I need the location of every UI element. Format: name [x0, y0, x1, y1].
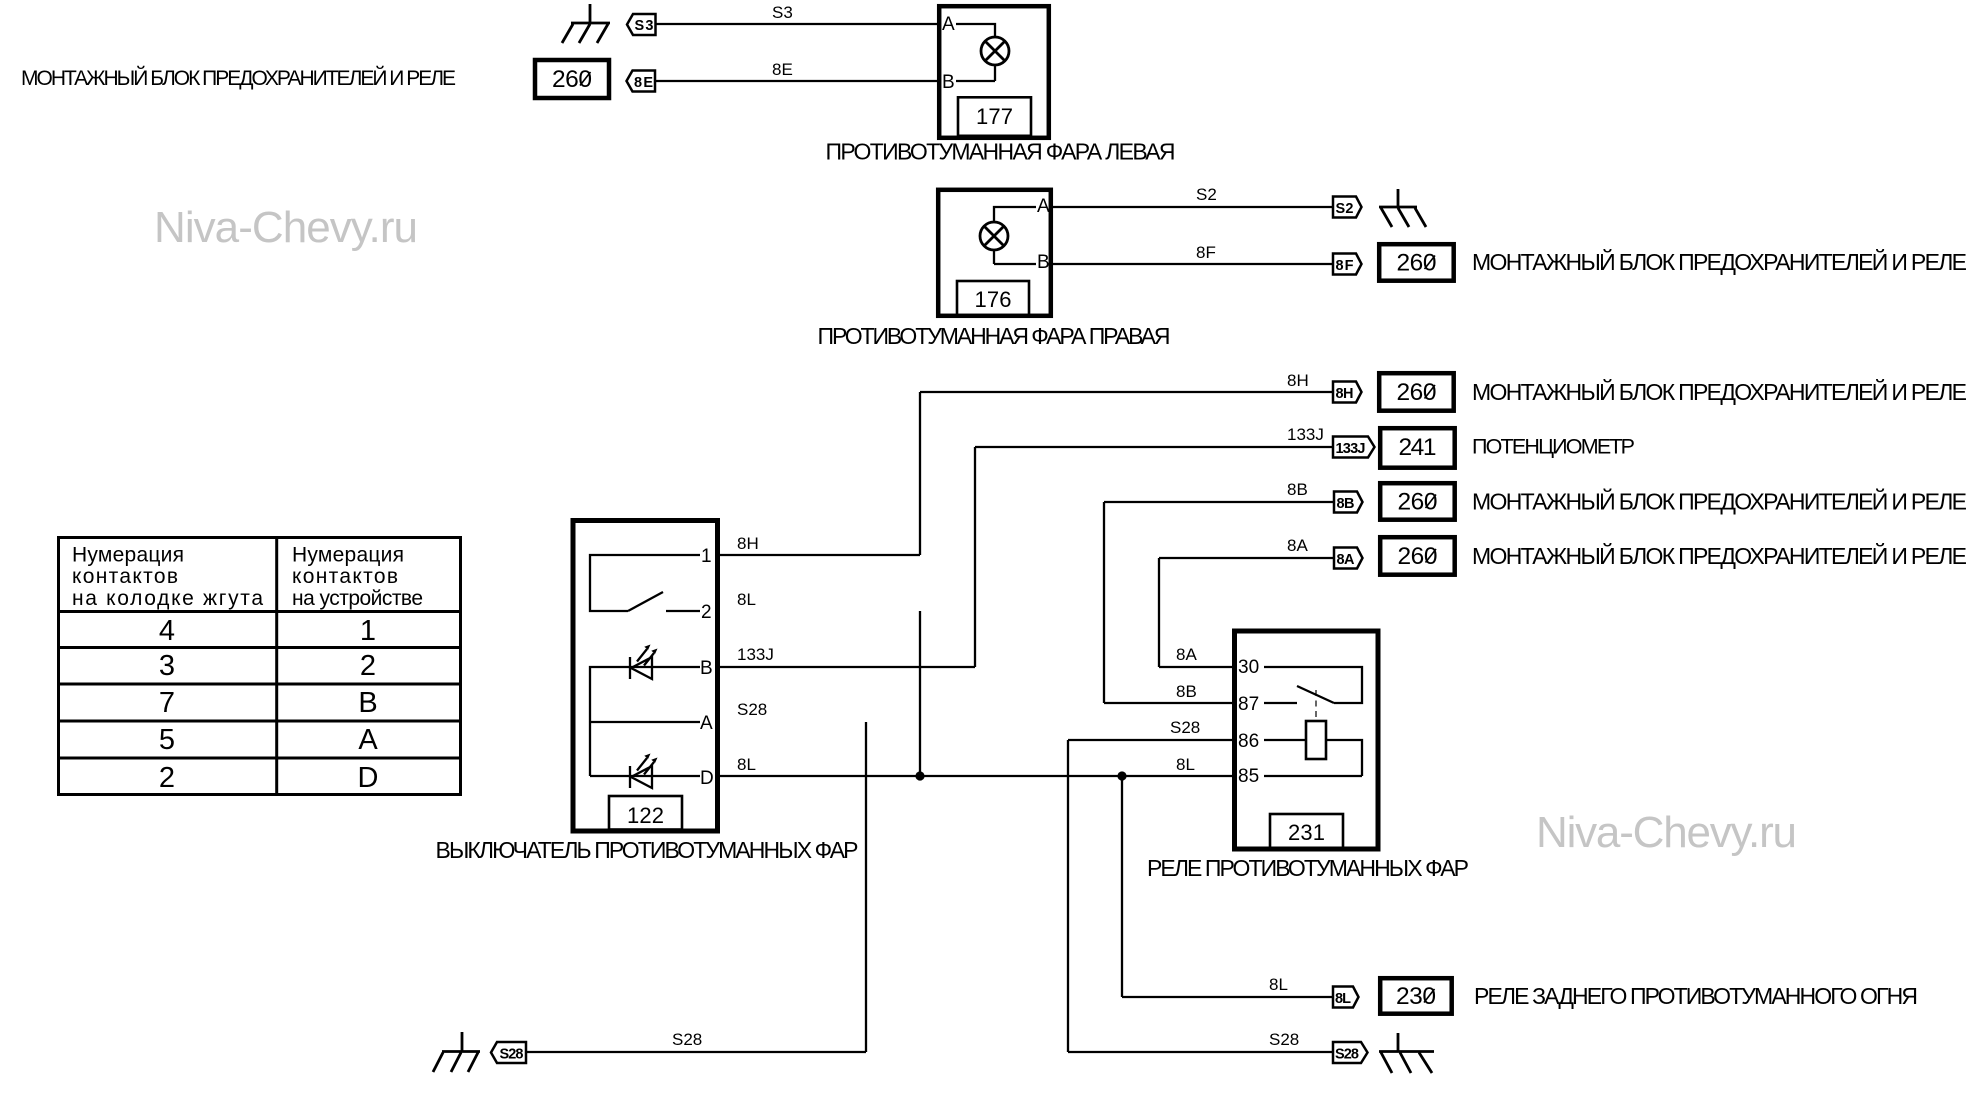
- wire 133J: [720, 447, 1333, 667]
- svg-text:2: 2: [701, 602, 712, 623]
- svg-text:контактов: контактов: [72, 565, 178, 588]
- LED indicator at pin B: [630, 645, 658, 680]
- svg-text:B: B: [358, 687, 377, 719]
- svg-text:МОНТАЖНЫЙ БЛОК ПРЕДОХРАНИТЕЛЕЙ: МОНТАЖНЫЙ БЛОК ПРЕДОХРАНИТЕЛЕЙ И РЕЛЕ: [1472, 378, 1967, 405]
- relay box 231: [1235, 631, 1379, 849]
- svg-text:8B: 8B: [1337, 496, 1355, 512]
- svg-text:7: 7: [159, 687, 175, 719]
- svg-text:260: 260: [1398, 543, 1438, 570]
- wire S28 to relay 86: [1068, 740, 1234, 1052]
- svg-text:S2: S2: [1196, 185, 1217, 204]
- inner designator box 176: [957, 281, 1029, 316]
- relay coil wiring 86-85: [1264, 740, 1362, 776]
- inner designator box 177: [958, 97, 1031, 136]
- svg-text:S28: S28: [1335, 1047, 1359, 1063]
- svg-text:A: A: [942, 14, 955, 35]
- inner designator box 231: [1270, 814, 1343, 848]
- svg-text:8H: 8H: [1336, 386, 1354, 402]
- ground S28 bottom-right: [1379, 1033, 1434, 1073]
- wire S28 bottom-left: [526, 1051, 866, 1053]
- svg-text:МОНТАЖНЫЙ БЛОК ПРЕДОХРАНИТЕЛЕЙ: МОНТАЖНЫЙ БЛОК ПРЕДОХРАНИТЕЛЕЙ И РЕЛЕ: [1472, 542, 1967, 569]
- svg-text:S28: S28: [737, 700, 767, 719]
- svg-text:8A: 8A: [1287, 536, 1308, 555]
- junction dot 8L at x920: [915, 771, 924, 780]
- svg-text:B: B: [1037, 252, 1050, 273]
- svg-text:B: B: [700, 658, 713, 679]
- ground S2 top-right: [1379, 189, 1426, 227]
- svg-text:A: A: [700, 713, 713, 734]
- connector box 241 potentiometer: [1380, 428, 1455, 468]
- ground S3 top-left: [562, 4, 610, 43]
- junction dot 8L at x1122: [1117, 771, 1126, 780]
- svg-text:3: 3: [159, 650, 175, 682]
- svg-text:86: 86: [1238, 731, 1259, 752]
- svg-text:8H: 8H: [737, 534, 759, 553]
- svg-text:176: 176: [975, 287, 1012, 312]
- svg-text:133J: 133J: [1287, 425, 1324, 444]
- svg-text:МОНТАЖНЫЙ БЛОК ПРЕДОХРАНИТЕЛЕЙ: МОНТАЖНЫЙ БЛОК ПРЕДОХРАНИТЕЛЕЙ И РЕЛЕ: [1472, 488, 1967, 515]
- ground S28 bottom-left: [433, 1032, 480, 1072]
- svg-text:8B: 8B: [1287, 480, 1308, 499]
- svg-text:S28: S28: [1269, 1030, 1299, 1049]
- svg-text:133J: 133J: [737, 645, 774, 664]
- svg-text:8L: 8L: [1335, 991, 1351, 1007]
- connector box 260 row 8F: [1379, 244, 1454, 281]
- svg-text:контактов: контактов: [292, 565, 398, 588]
- svg-text:133J: 133J: [1336, 441, 1366, 457]
- svg-text:1: 1: [360, 615, 376, 647]
- slashed zero of 260: [580, 72, 591, 86]
- svg-text:Нумерация: Нумерация: [72, 544, 184, 567]
- svg-text:B: B: [942, 72, 955, 93]
- connector box 230 rear fog relay: [1380, 978, 1452, 1014]
- lamp symbol 176: [980, 222, 1008, 250]
- lamp wiring 176: [994, 207, 1036, 264]
- svg-text:8L: 8L: [737, 755, 756, 774]
- svg-text:85: 85: [1238, 766, 1259, 787]
- svg-text:8H: 8H: [1287, 371, 1309, 390]
- connector tag S28 bottom-left: [491, 1042, 526, 1063]
- connector tag 8F: [1333, 254, 1362, 275]
- svg-text:2: 2: [360, 650, 376, 682]
- svg-text:A: A: [358, 724, 378, 756]
- svg-text:177: 177: [976, 104, 1013, 129]
- svg-text:8E: 8E: [772, 60, 793, 79]
- connector box 260 row 8B: [1380, 483, 1455, 520]
- connector box 260 top-left: [535, 60, 609, 98]
- connector tag 8A: [1334, 548, 1363, 569]
- svg-text:8L: 8L: [1269, 975, 1288, 994]
- wire 8L from pin 2 down: [919, 611, 921, 776]
- fog lamp right box 176: [938, 190, 1051, 316]
- LED indicator at pin D: [630, 754, 658, 789]
- connector box 260 row 8H: [1379, 373, 1454, 411]
- svg-text:8L: 8L: [737, 590, 756, 609]
- svg-text:8A: 8A: [1337, 552, 1356, 568]
- connector tag S2: [1333, 197, 1362, 218]
- svg-text:231: 231: [1288, 820, 1325, 845]
- svg-text:8E: 8E: [634, 75, 653, 91]
- svg-text:S28: S28: [672, 1030, 702, 1049]
- wire S28 from pin A down to bottom: [865, 722, 867, 1052]
- connector tag S3: [627, 14, 656, 35]
- wire 8L main run: [720, 775, 1234, 777]
- wire S28 bottom-right: [1068, 1051, 1333, 1053]
- connector box 260 row 8A: [1380, 537, 1455, 575]
- wire S3: [656, 23, 940, 25]
- connector tag 8E: [627, 71, 656, 92]
- relay coil: [1306, 721, 1326, 759]
- table frame: [59, 538, 461, 795]
- svg-text:2: 2: [159, 762, 175, 794]
- svg-text:5: 5: [159, 724, 175, 756]
- svg-text:241: 241: [1399, 434, 1437, 461]
- svg-text:260: 260: [1397, 379, 1437, 406]
- svg-text:S28: S28: [1170, 718, 1200, 737]
- switch box 122: [573, 521, 718, 832]
- svg-text:D: D: [700, 768, 714, 789]
- svg-text:8A: 8A: [1176, 645, 1197, 664]
- wire 8F: [1053, 263, 1333, 265]
- svg-text:122: 122: [627, 803, 664, 828]
- table column divider: [275, 538, 278, 795]
- svg-text:ВЫКЛЮЧАТЕЛЬ ПРОТИВОТУМАННЫХ ФА: ВЫКЛЮЧАТЕЛЬ ПРОТИВОТУМАННЫХ ФАР: [436, 837, 859, 863]
- relay contact 30-87: [1264, 667, 1362, 703]
- svg-text:8F: 8F: [1336, 258, 1354, 274]
- svg-text:8B: 8B: [1176, 682, 1197, 701]
- svg-text:4: 4: [159, 615, 175, 647]
- svg-text:260: 260: [552, 66, 592, 93]
- led-diode branch wiring B A D: [590, 667, 700, 776]
- svg-text:ПОТЕНЦИОМЕТР: ПОТЕНЦИОМЕТР: [1472, 435, 1635, 459]
- relay armature dashed link: [1315, 690, 1317, 721]
- wire 8E: [655, 80, 939, 82]
- table row separators: [59, 612, 461, 759]
- wire 8A: [1159, 558, 1334, 667]
- lamp symbol 177: [981, 37, 1009, 65]
- svg-text:ПРОТИВОТУМАННАЯ ФАРА ПРАВАЯ: ПРОТИВОТУМАННАЯ ФАРА ПРАВАЯ: [818, 323, 1171, 349]
- svg-text:S3: S3: [635, 18, 654, 34]
- svg-text:МОНТАЖНЫЙ БЛОК ПРЕДОХРАНИТЕЛЕЙ: МОНТАЖНЫЙ БЛОК ПРЕДОХРАНИТЕЛЕЙ И РЕЛЕ: [1472, 248, 1967, 275]
- connector tag S28 bottom-right: [1333, 1042, 1368, 1063]
- svg-text:Нумерация: Нумерация: [292, 544, 404, 567]
- svg-text:D: D: [358, 762, 379, 794]
- svg-text:260: 260: [1398, 489, 1438, 516]
- svg-text:S2: S2: [1336, 201, 1354, 217]
- wire S2: [1053, 206, 1333, 208]
- connector tag 8H: [1333, 382, 1362, 403]
- svg-text:1: 1: [701, 546, 712, 567]
- svg-text:8F: 8F: [1196, 243, 1216, 262]
- lamp wiring 177: [956, 24, 995, 81]
- svg-text:87: 87: [1238, 694, 1259, 715]
- fog lamp left box 177: [939, 6, 1049, 138]
- svg-text:S28: S28: [500, 1047, 524, 1063]
- wire 8H horizontal to tag: [720, 392, 1333, 555]
- svg-text:Niva-Chevy.ru: Niva-Chevy.ru: [1536, 808, 1797, 857]
- svg-text:S3: S3: [772, 3, 793, 22]
- svg-text:МОНТАЖНЫЙ БЛОК ПРЕДОХРАНИТЕЛЕЙ: МОНТАЖНЫЙ БЛОК ПРЕДОХРАНИТЕЛЕЙ И РЕЛЕ: [21, 66, 456, 90]
- connector tag 8B: [1334, 492, 1363, 513]
- inner designator box 122: [609, 796, 682, 830]
- svg-text:ПРОТИВОТУМАННАЯ ФАРА ЛЕВАЯ: ПРОТИВОТУМАННАЯ ФАРА ЛЕВАЯ: [826, 138, 1176, 164]
- svg-text:РЕЛЕ ПРОТИВОТУМАННЫХ ФАР: РЕЛЕ ПРОТИВОТУМАННЫХ ФАР: [1147, 855, 1469, 881]
- svg-text:A: A: [1037, 196, 1050, 217]
- svg-text:на устройстве: на устройстве: [292, 587, 423, 610]
- wire 8L down to relay row: [1121, 776, 1123, 997]
- switch contact 1-2: [590, 555, 700, 611]
- svg-text:8L: 8L: [1176, 755, 1195, 774]
- svg-text:30: 30: [1238, 657, 1259, 678]
- connector tag 133J: [1333, 437, 1375, 458]
- wire 8B: [1104, 502, 1334, 703]
- svg-text:на колодке жгута: на колодке жгута: [72, 587, 263, 610]
- svg-text:РЕЛЕ ЗАДНЕГО ПРОТИВОТУМАННОГО: РЕЛЕ ЗАДНЕГО ПРОТИВОТУМАННОГО ОГНЯ: [1474, 983, 1918, 1009]
- svg-text:260: 260: [1397, 250, 1437, 277]
- wire 8L to rear fog relay: [1122, 996, 1333, 998]
- connector tag 8L bottom: [1333, 987, 1359, 1008]
- svg-text:Niva-Chevy.ru: Niva-Chevy.ru: [154, 203, 418, 252]
- svg-text:230: 230: [1396, 983, 1436, 1010]
